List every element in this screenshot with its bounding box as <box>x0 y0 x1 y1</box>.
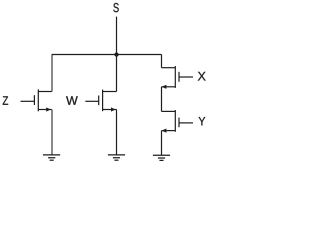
ground (under W) <box>108 155 125 160</box>
wire X source to Y drain <box>161 87 163 112</box>
transistor Z <box>21 89 52 111</box>
wire Z source drop <box>51 110 53 155</box>
label Y <box>199 117 206 125</box>
wire right drop (rail to Q-X drain) <box>161 55 163 68</box>
wire S vertical <box>116 17 118 55</box>
wire W source drop <box>116 110 118 155</box>
node S label <box>113 3 118 12</box>
ground (under Y) <box>153 155 170 160</box>
label X <box>198 72 206 81</box>
transistor Y <box>162 110 194 133</box>
label W <box>66 96 78 105</box>
transistor X <box>162 66 194 89</box>
label Z <box>3 96 8 104</box>
wire W drain vertical (junction to W) <box>116 55 118 92</box>
ground (under Z) <box>43 155 60 160</box>
junction dot <box>114 53 118 57</box>
transistor W <box>85 90 116 112</box>
wire top rail <box>52 54 162 56</box>
wire Y source drop <box>161 131 163 156</box>
wire left drop (rail to Q-Z drain) <box>51 55 53 92</box>
